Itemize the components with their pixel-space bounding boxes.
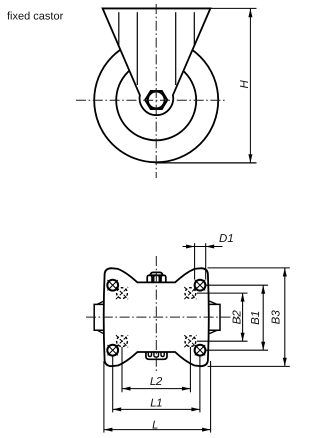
right protrusion chamfer bottom xyxy=(209,330,218,334)
svg-text:B2: B2 xyxy=(231,310,243,325)
D1 extension line left xyxy=(194,243,196,279)
fork bend line 2 xyxy=(136,12,138,85)
alternate hole (dashed) bottom-right xyxy=(185,336,196,347)
L2 arrow right xyxy=(182,387,191,391)
B1 arrow top xyxy=(261,285,265,294)
mounting hole top-right xyxy=(195,280,206,291)
D1 arrow right xyxy=(206,245,215,249)
fork bracket xyxy=(103,8,211,115)
L1 arrow right xyxy=(191,407,200,411)
svg-text:L: L xyxy=(152,419,158,431)
bottom bolt slots xyxy=(148,352,164,357)
plate outline (plan view) xyxy=(104,268,209,366)
right axle protrusion xyxy=(209,304,221,330)
axle circle xyxy=(148,92,165,109)
B3 extension line bottom xyxy=(208,365,290,367)
B3 arrow top xyxy=(283,268,287,277)
fork bend line 3 xyxy=(175,12,177,85)
svg-text:B3: B3 xyxy=(271,310,283,325)
L1 extension line left xyxy=(112,357,114,413)
svg-text:L2: L2 xyxy=(150,376,163,388)
L extension line left xyxy=(103,361,105,433)
right protrusion chamfer top xyxy=(209,301,218,305)
hole cross top-right xyxy=(195,280,205,290)
B1 extension line top xyxy=(206,284,268,286)
alternate hole (dashed) top-left xyxy=(117,288,128,299)
mounting hole top-left xyxy=(107,280,118,291)
hole cross bottom-left xyxy=(108,345,118,355)
L1 arrow left xyxy=(113,407,122,411)
B1 arrow bottom xyxy=(261,342,265,351)
wheel outer circle xyxy=(94,38,218,162)
B2 arrow top xyxy=(241,293,245,302)
fork bend line 4 xyxy=(193,12,195,46)
dashed cross top-right xyxy=(184,287,196,299)
ground line xyxy=(155,162,257,164)
top plate line xyxy=(103,7,211,9)
dimension D1 line xyxy=(183,246,223,248)
alternate hole (dashed) bottom-left xyxy=(117,336,128,347)
dimension L2 line xyxy=(122,388,190,390)
dashed cross bottom-left xyxy=(116,335,128,347)
H arrow top xyxy=(248,9,252,17)
H extension line top xyxy=(210,7,256,9)
L2 extension line right xyxy=(189,347,191,392)
top bolt arches xyxy=(147,275,166,282)
svg-text:D1: D1 xyxy=(219,233,234,245)
D1 extension line right xyxy=(205,243,207,279)
L arrow left xyxy=(104,428,113,432)
plan horizontal centerline xyxy=(86,316,239,318)
alternate hole (dashed) top-right xyxy=(185,288,196,299)
fork bend line 1 xyxy=(118,12,120,46)
B2 extension line top xyxy=(197,292,248,294)
L extension line right xyxy=(210,361,212,433)
L2 extension line left xyxy=(121,347,123,392)
L2 arrow left xyxy=(122,387,131,391)
plan vertical centerline xyxy=(155,256,157,373)
dimension L line xyxy=(104,429,211,431)
L arrow right xyxy=(202,428,211,432)
bottom bolt tray xyxy=(146,352,167,359)
vertical centerline top view xyxy=(155,4,157,178)
dashed cross bottom-right xyxy=(184,335,196,347)
hole cross bottom-right xyxy=(195,345,205,355)
hole cross top-left xyxy=(108,280,118,290)
B2 arrow bottom xyxy=(241,333,245,342)
dimension L1 line xyxy=(113,408,200,410)
axle nut hexagon xyxy=(145,91,167,109)
mounting hole bottom-right xyxy=(195,345,206,356)
B2 extension line bottom xyxy=(197,340,248,342)
dashed cross top-left xyxy=(116,287,128,299)
svg-text:H: H xyxy=(239,79,251,88)
D1 arrow left xyxy=(186,245,195,249)
left protrusion chamfer top xyxy=(97,301,104,305)
wheel tire circle xyxy=(116,60,196,140)
dimension B1 line xyxy=(262,285,264,350)
dimension B3 line xyxy=(284,268,286,366)
mounting hole bottom-left xyxy=(107,345,118,356)
left protrusion chamfer bottom xyxy=(97,330,104,334)
B3 extension line top xyxy=(208,267,290,269)
B1 extension line bottom xyxy=(206,349,268,351)
svg-text:B1: B1 xyxy=(250,311,262,325)
H arrow bottom xyxy=(248,154,252,163)
svg-text:fixed castor: fixed castor xyxy=(7,11,64,23)
B3 arrow bottom xyxy=(283,358,287,367)
left axle protrusion xyxy=(94,304,104,330)
L1 extension line right xyxy=(199,357,201,413)
dimension B2 line xyxy=(242,293,244,341)
svg-text:L1: L1 xyxy=(150,397,162,409)
dimension H line xyxy=(249,9,251,163)
top bolt cap xyxy=(150,272,163,275)
horizontal centerline top view xyxy=(76,99,226,101)
